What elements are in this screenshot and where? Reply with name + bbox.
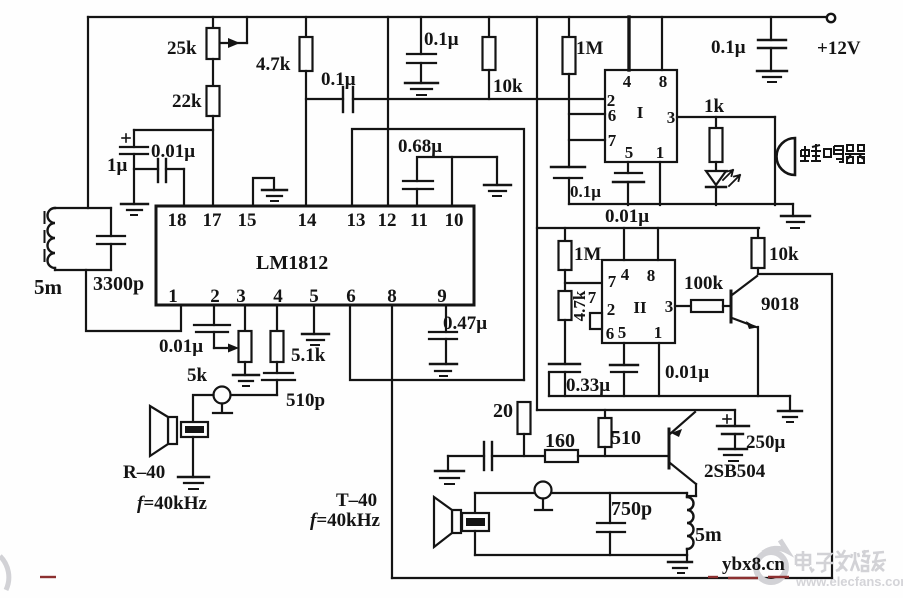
- svg-text:2SB504: 2SB504: [704, 461, 766, 482]
- svg-text:12: 12: [378, 210, 397, 231]
- svg-text:1: 1: [168, 286, 178, 307]
- svg-text:10k: 10k: [493, 76, 523, 97]
- speaker icon R-40: [150, 406, 177, 456]
- ground below 5k pot: [233, 375, 259, 386]
- svg-text:0.1μ: 0.1μ: [424, 29, 459, 50]
- svg-text:5: 5: [625, 143, 634, 162]
- svg-text:8: 8: [659, 72, 668, 91]
- resistor 4.7k: [300, 17, 313, 206]
- svg-text:7: 7: [608, 131, 617, 150]
- svg-text:LM1812: LM1812: [256, 252, 328, 274]
- capacitor 0.01u at pin5 of II: [610, 343, 638, 396]
- svg-text:0.1μ: 0.1μ: [321, 69, 356, 90]
- svg-text:1M: 1M: [576, 38, 604, 59]
- svg-text:750p: 750p: [611, 498, 652, 520]
- wire emitter supply line: [537, 409, 735, 411]
- op-amp U2 IC I box: [605, 70, 677, 162]
- capacitor 0.1u decoupling +12V: [758, 17, 786, 71]
- capacitor 0.1u below 1M: [551, 167, 585, 204]
- svg-text:0.1μ: 0.1μ: [570, 182, 601, 201]
- wire pin8 of I to rail: [661, 17, 663, 70]
- op-amp U3 IC II box: [602, 260, 675, 343]
- svg-text:0.01μ: 0.01μ: [665, 362, 709, 383]
- wire pin6 of I: [569, 113, 605, 115]
- svg-text:1: 1: [654, 323, 663, 342]
- wire pin12 to top rail: [387, 17, 389, 206]
- resistor 1M of IC II: [559, 228, 572, 291]
- svg-text:7: 7: [588, 288, 597, 307]
- transducer R-40 crystal: [181, 422, 208, 477]
- resistor 100k: [675, 300, 731, 312]
- wire pin4 of I to rail: [627, 17, 630, 70]
- wire bottom return: [392, 577, 832, 579]
- svg-text:5m: 5m: [695, 524, 722, 546]
- capacitor 0.01u at pin2: [194, 306, 239, 353]
- wire pin1 of I down: [659, 162, 661, 205]
- capacitor 250u electrolytic: [717, 410, 749, 449]
- svg-text:5: 5: [309, 286, 319, 307]
- LED: [706, 170, 740, 205]
- capacitor 0.33u: [549, 364, 580, 396]
- ground at pin15: [253, 178, 287, 206]
- ground below 0.1u: [405, 83, 438, 95]
- resistor 510: [599, 410, 612, 456]
- wire pin4 of II: [623, 228, 625, 260]
- wire oscillator tank bottom: [475, 554, 687, 556]
- wire II supply bus: [537, 227, 759, 229]
- transistor Q1 9018: [731, 276, 758, 396]
- resistor 10k top: [483, 17, 496, 99]
- node 5k wiper jack circle: [213, 387, 232, 414]
- wire rail x537 from +12V down to transmit: [536, 17, 538, 410]
- speaker icon T-40: [434, 497, 461, 547]
- ground below decoupling: [757, 71, 787, 82]
- svg-text:1μ: 1μ: [107, 155, 128, 176]
- capacitor 0.01u at pin18: [134, 159, 184, 206]
- transistor Q2 2SB504: [669, 412, 696, 496]
- svg-text:6: 6: [346, 286, 356, 307]
- svg-text:8: 8: [387, 286, 397, 307]
- svg-text:11: 11: [410, 210, 428, 231]
- potentiometer 5k at pin3: [239, 306, 252, 375]
- wire pin8 of II: [657, 228, 659, 260]
- node +12V terminal: [827, 14, 835, 22]
- svg-text:1: 1: [656, 143, 665, 162]
- svg-text:0.1μ: 0.1μ: [711, 37, 746, 58]
- svg-text:4.7k: 4.7k: [570, 290, 589, 321]
- wire circle to R-40 crystal: [193, 395, 214, 422]
- svg-text:I: I: [637, 103, 644, 122]
- svg-text:0.01μ: 0.01μ: [151, 141, 195, 162]
- ground below 0.47u: [430, 364, 457, 376]
- wire top +12V rail: [88, 16, 826, 18]
- wire II ground bus: [549, 395, 790, 397]
- svg-text:R–40: R–40: [123, 462, 165, 483]
- svg-text:160: 160: [545, 430, 575, 452]
- wire IC I ground bus: [569, 203, 793, 205]
- wire pin7 of II: [565, 282, 602, 284]
- svg-text:f=40kHz: f=40kHz: [310, 510, 381, 531]
- buzzer: [775, 117, 795, 205]
- svg-text:4: 4: [623, 72, 632, 91]
- resistor 1k: [710, 117, 723, 171]
- svg-text:250μ: 250μ: [746, 432, 786, 453]
- svg-text:T–40: T–40: [336, 490, 377, 511]
- svg-text:9: 9: [437, 286, 447, 307]
- svg-text:13: 13: [347, 210, 366, 231]
- wire pin10 up to 0.68u wire: [451, 157, 453, 206]
- transducer T-40 crystal: [462, 493, 489, 555]
- svg-text:+12V: +12V: [817, 38, 861, 59]
- resistor 1M of IC I: [563, 17, 576, 167]
- svg-text:10k: 10k: [769, 244, 799, 265]
- svg-text:510: 510: [611, 427, 641, 449]
- wire oscillator tank top: [475, 492, 687, 494]
- svg-text:3300p: 3300p: [93, 273, 144, 295]
- svg-text:5: 5: [618, 323, 627, 342]
- svg-text:0.33μ: 0.33μ: [566, 375, 610, 396]
- resistor 20: [518, 402, 531, 456]
- resistor 22k: [207, 86, 220, 206]
- resistor 160: [545, 450, 668, 462]
- svg-text:II: II: [633, 298, 647, 317]
- capacitor input coupling: [448, 442, 545, 470]
- svg-text:510p: 510p: [286, 390, 325, 411]
- wire pin7 of I: [569, 139, 605, 141]
- svg-text:5m: 5m: [34, 275, 63, 299]
- capacitor 0.1u to ground mid top: [407, 17, 436, 83]
- svg-text:5.1k: 5.1k: [291, 345, 326, 366]
- svg-text:0.01μ: 0.01μ: [605, 206, 649, 227]
- svg-text:20: 20: [493, 400, 513, 422]
- capacitor 0.68u at pin11: [403, 157, 497, 206]
- svg-text:0.47μ: 0.47μ: [443, 313, 487, 334]
- resistor 10k of IC II: [752, 228, 765, 274]
- ground right of 0.68u: [484, 157, 511, 196]
- watermark magnifier: [0, 540, 787, 590]
- potentiometer 25k: [207, 17, 248, 86]
- svg-text:22k: 22k: [172, 91, 202, 112]
- capacitor 3300p: [97, 208, 125, 270]
- svg-text:2: 2: [210, 286, 220, 307]
- wire red scan marks: [40, 577, 789, 578]
- svg-text:1M: 1M: [574, 244, 602, 265]
- wire pin2 line of IC I across: [306, 98, 343, 100]
- ground below 1u: [121, 204, 148, 215]
- svg-text:1k: 1k: [704, 96, 725, 117]
- svg-text:10: 10: [445, 210, 464, 231]
- label buzzer chinese: [800, 144, 821, 162]
- capacitor 0.1u series on pin2 line: [343, 87, 605, 112]
- capacitor 0.47u at pin9: [429, 306, 457, 364]
- wire pin6 right to transmit rail: [350, 306, 524, 380]
- ground IC I bus: [781, 204, 810, 228]
- svg-text:25k: 25k: [167, 38, 197, 59]
- wire collector node to right rail: [758, 274, 832, 578]
- capacitor 510p: [231, 373, 295, 395]
- svg-text:0.68μ: 0.68μ: [398, 136, 442, 157]
- resistor 5.1k at pin4: [271, 306, 284, 373]
- svg-text:8: 8: [647, 266, 656, 285]
- ground at pin5: [302, 306, 329, 345]
- inductor 5m transmit: [687, 493, 696, 555]
- svg-text:4: 4: [621, 265, 630, 284]
- wire left rail down to tank: [87, 17, 89, 208]
- svg-text:7: 7: [608, 272, 617, 291]
- svg-text:6: 6: [606, 324, 615, 343]
- svg-text:4: 4: [273, 286, 283, 307]
- capacitor 750p: [597, 493, 625, 555]
- svg-text:17: 17: [203, 210, 223, 231]
- ground below 250u: [719, 449, 747, 461]
- inductor 5m receive tank: [45, 208, 112, 270]
- svg-text:6: 6: [608, 106, 617, 125]
- svg-text:100k: 100k: [684, 273, 724, 294]
- capacitor 1u electrolytic: [120, 130, 148, 204]
- wire pin13 route up and right: [352, 129, 524, 380]
- wire pin1 of II: [658, 343, 660, 396]
- ground left of coupling cap: [435, 456, 464, 484]
- svg-text:3: 3: [667, 108, 676, 127]
- svg-text:ybx8.cn: ybx8.cn: [722, 554, 785, 575]
- svg-text:15: 15: [238, 210, 257, 231]
- ground tank bottom: [668, 555, 692, 573]
- ground II bus: [778, 396, 802, 422]
- svg-text:18: 18: [168, 210, 187, 231]
- svg-text:0.01μ: 0.01μ: [159, 336, 203, 357]
- svg-text:4.7k: 4.7k: [256, 54, 291, 75]
- svg-text:9018: 9018: [761, 294, 799, 315]
- wire pin8 down: [391, 306, 393, 578]
- ground below R-40: [178, 477, 209, 489]
- op-amp U1 LM1812 box: [156, 206, 474, 305]
- watermark elecfans text: [796, 550, 886, 572]
- svg-text:3: 3: [236, 286, 246, 307]
- capacitor 0.01u at pin5 of I: [613, 162, 644, 205]
- node jack circle transmit: [535, 482, 553, 511]
- svg-text:3: 3: [665, 297, 674, 316]
- wire pin3 of I to right: [677, 116, 775, 118]
- wire branch 22k bottom to 1u: [134, 129, 213, 131]
- svg-text:5k: 5k: [187, 365, 208, 386]
- wire tank bottom to pin1: [86, 270, 181, 331]
- node pin2 stub of II: [590, 313, 602, 329]
- resistor 4.7k of IC II: [559, 291, 572, 364]
- svg-text:14: 14: [298, 210, 318, 231]
- svg-text:www.elecfans.com: www.elecfans.com: [795, 574, 903, 589]
- svg-text:f=40kHz: f=40kHz: [137, 493, 208, 514]
- svg-text:2: 2: [607, 300, 616, 319]
